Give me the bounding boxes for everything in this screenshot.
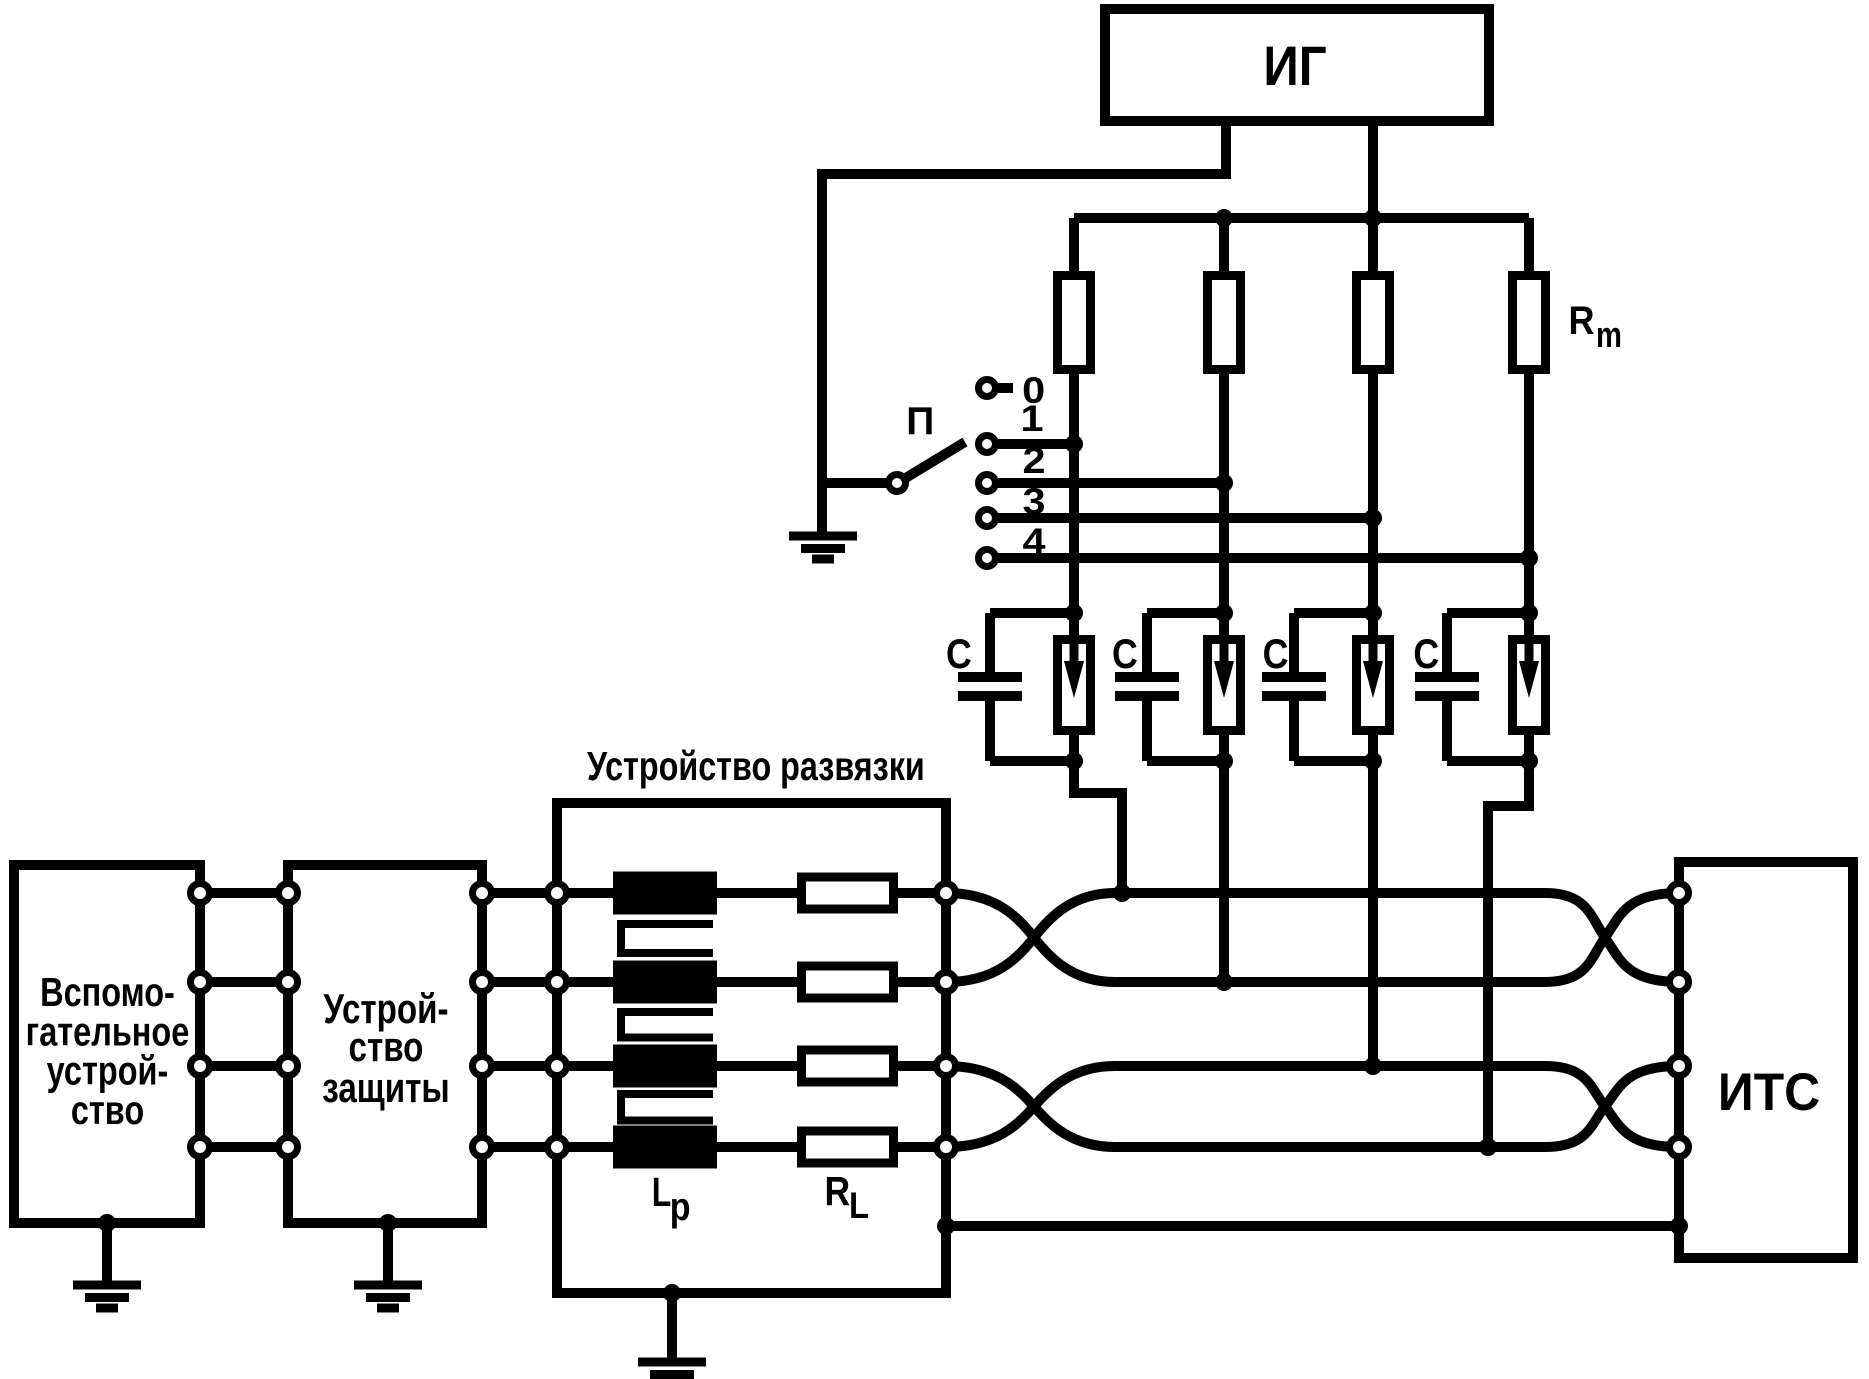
svg-text:П: П <box>906 400 934 443</box>
svg-text:m: m <box>1596 314 1622 355</box>
svg-text:ство: ство <box>71 1088 144 1133</box>
svg-text:L: L <box>652 1169 672 1215</box>
svg-text:ство: ство <box>349 1024 424 1071</box>
svg-text:ИГ: ИГ <box>1263 36 1326 97</box>
svg-text:защиты: защиты <box>322 1065 449 1112</box>
svg-text:R: R <box>825 1169 851 1215</box>
svg-text:Устройство развязки: Устройство развязки <box>587 744 925 789</box>
svg-text:p: p <box>670 1183 691 1228</box>
svg-text:C: C <box>1112 631 1138 677</box>
svg-text:R: R <box>1569 299 1595 343</box>
svg-text:C: C <box>946 631 972 677</box>
svg-text:2: 2 <box>1022 440 1045 481</box>
svg-text:1: 1 <box>1020 398 1043 439</box>
svg-text:C: C <box>1263 631 1289 677</box>
svg-text:L: L <box>849 1185 869 1226</box>
svg-text:ИТС: ИТС <box>1718 1062 1820 1122</box>
svg-text:C: C <box>1413 631 1439 677</box>
svg-text:4: 4 <box>1022 521 1045 562</box>
svg-text:3: 3 <box>1022 481 1045 522</box>
